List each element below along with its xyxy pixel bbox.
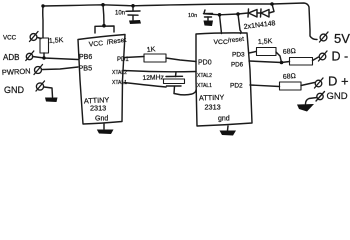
svg-text:PD1: PD1: [117, 57, 129, 63]
svg-text:1,5K: 1,5K: [49, 37, 64, 45]
svg-text:1,5K: 1,5K: [258, 38, 273, 46]
svg-text:PD2: PD2: [230, 83, 243, 90]
svg-text:GND: GND: [4, 85, 25, 95]
svg-text:PD6: PD6: [231, 62, 244, 69]
svg-text:gnd: gnd: [218, 116, 230, 123]
svg-text:Gnd: Gnd: [95, 116, 108, 123]
svg-text:D -: D -: [332, 50, 349, 64]
svg-text:XTAL2: XTAL2: [197, 73, 212, 79]
svg-text:PB6: PB6: [79, 54, 92, 61]
svg-text:XTAL1: XTAL1: [112, 80, 127, 86]
svg-text:VCC: VCC: [89, 40, 104, 48]
svg-text:PD0: PD0: [198, 60, 212, 67]
svg-text:VCC: VCC: [214, 39, 228, 46]
svg-text:1K: 1K: [146, 46, 156, 54]
svg-text:XTAL2: XTAL2: [112, 70, 127, 76]
svg-text:PWRON: PWRON: [2, 67, 31, 77]
svg-text:68Ω: 68Ω: [283, 48, 297, 56]
svg-text:10n: 10n: [188, 13, 197, 19]
svg-text:12MHz: 12MHz: [142, 74, 164, 82]
svg-text:PB5: PB5: [79, 64, 93, 73]
svg-text:2313: 2313: [205, 103, 221, 112]
svg-text:GND: GND: [327, 91, 348, 102]
svg-text:PD3: PD3: [232, 52, 245, 59]
svg-text:D +: D +: [328, 74, 349, 89]
svg-text:ADB: ADB: [3, 53, 19, 62]
svg-text:2313: 2313: [90, 104, 106, 113]
svg-text:68Ω: 68Ω: [283, 73, 297, 81]
svg-text:10n: 10n: [115, 11, 125, 17]
svg-text:ATTINY: ATTINY: [199, 93, 225, 103]
svg-text:VCC: VCC: [3, 35, 17, 42]
svg-text:XTAL1: XTAL1: [197, 83, 212, 89]
svg-text:5V: 5V: [334, 31, 350, 46]
